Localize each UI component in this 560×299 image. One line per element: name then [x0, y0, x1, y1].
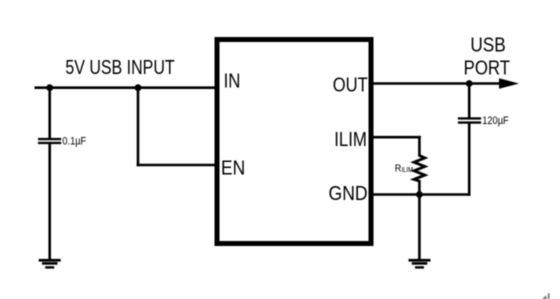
wire: EN horizontal into pin — [137, 164, 217, 167]
svg-text:ILIM: ILIM — [334, 128, 367, 151]
wire: 5V input bus (top horizontal) — [35, 86, 218, 89]
wire: C1 top lead (vertical) — [48, 88, 51, 139]
svg-text:GND: GND — [329, 182, 368, 204]
wire: C1 bottom lead (vertical) — [48, 144, 51, 261]
svg-text:OUT: OUT — [333, 73, 368, 96]
capacitor C2 plates — [458, 117, 481, 123]
wire: GND bus (horizontal) — [371, 193, 471, 196]
svg-text:USB: USB — [470, 33, 505, 56]
wire: EN vertical from tap — [137, 88, 140, 167]
svg-text:5V USB INPUT: 5V USB INPUT — [65, 57, 174, 79]
wire: ILIM horizontal — [371, 136, 421, 139]
ground symbol (output side) — [409, 259, 431, 269]
wire: ILIM vertical to resistor — [418, 136, 421, 157]
node: junction at input capacitor — [46, 84, 53, 91]
node: junction on GND bus — [416, 191, 423, 198]
wire: OUT to USB port — [371, 82, 501, 85]
resistor R_ILIM zigzag — [414, 156, 425, 182]
ground symbol (input side) — [39, 259, 61, 269]
IC U1 body — [217, 40, 371, 244]
svg-text:PORT: PORT — [464, 56, 510, 79]
wire: resistor to GND junction — [418, 180, 421, 195]
svg-text:EN: EN — [221, 156, 245, 178]
node: junction at output capacitor — [466, 80, 473, 87]
wire: C2 top lead — [468, 84, 471, 119]
wire: GND bus down to ground — [418, 195, 421, 261]
svg-text:IN: IN — [224, 69, 241, 92]
wire: C2 bottom lead — [468, 123, 471, 196]
svg-text:120µF: 120µF — [482, 115, 508, 127]
svg-text:0.1µF: 0.1µF — [62, 136, 86, 148]
node: junction at EN tap — [135, 84, 142, 91]
capacitor C1 plates — [38, 138, 61, 144]
artifact: faint cropped mark bottom-right — [542, 293, 549, 299]
arrowhead: USB PORT — [499, 78, 519, 89]
